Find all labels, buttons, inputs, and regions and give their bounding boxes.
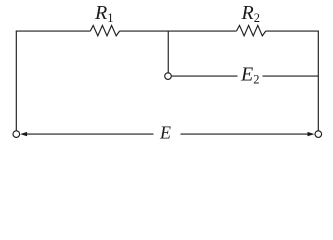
wire E2 left segment (171, 75, 237, 77)
wire E dimension line left part (26, 133, 154, 135)
svg-text:E: E (159, 123, 171, 143)
wire right vertical (317, 31, 319, 131)
wire left vertical (15, 31, 17, 131)
wire junction vertical to E2 node (167, 31, 169, 73)
node right bottom terminal (open circle) (315, 131, 322, 138)
svg-text:R2: R2 (241, 2, 260, 25)
wire top-right segment (266, 30, 319, 32)
svg-text:R1: R1 (94, 2, 113, 25)
arrowhead right of E dimension (308, 132, 315, 136)
arrowhead left of E dimension (20, 132, 27, 136)
svg-text:E2: E2 (240, 64, 259, 87)
wire top-middle segment (120, 30, 237, 32)
resistor R2 (237, 25, 266, 35)
node E2 terminal (open circle) (165, 73, 172, 80)
wire top-left segment (16, 30, 91, 32)
node left bottom terminal (open circle) (13, 131, 20, 138)
wire E2 right segment (263, 75, 319, 77)
wire E dimension line right part (181, 133, 309, 135)
resistor R1 (90, 25, 119, 35)
